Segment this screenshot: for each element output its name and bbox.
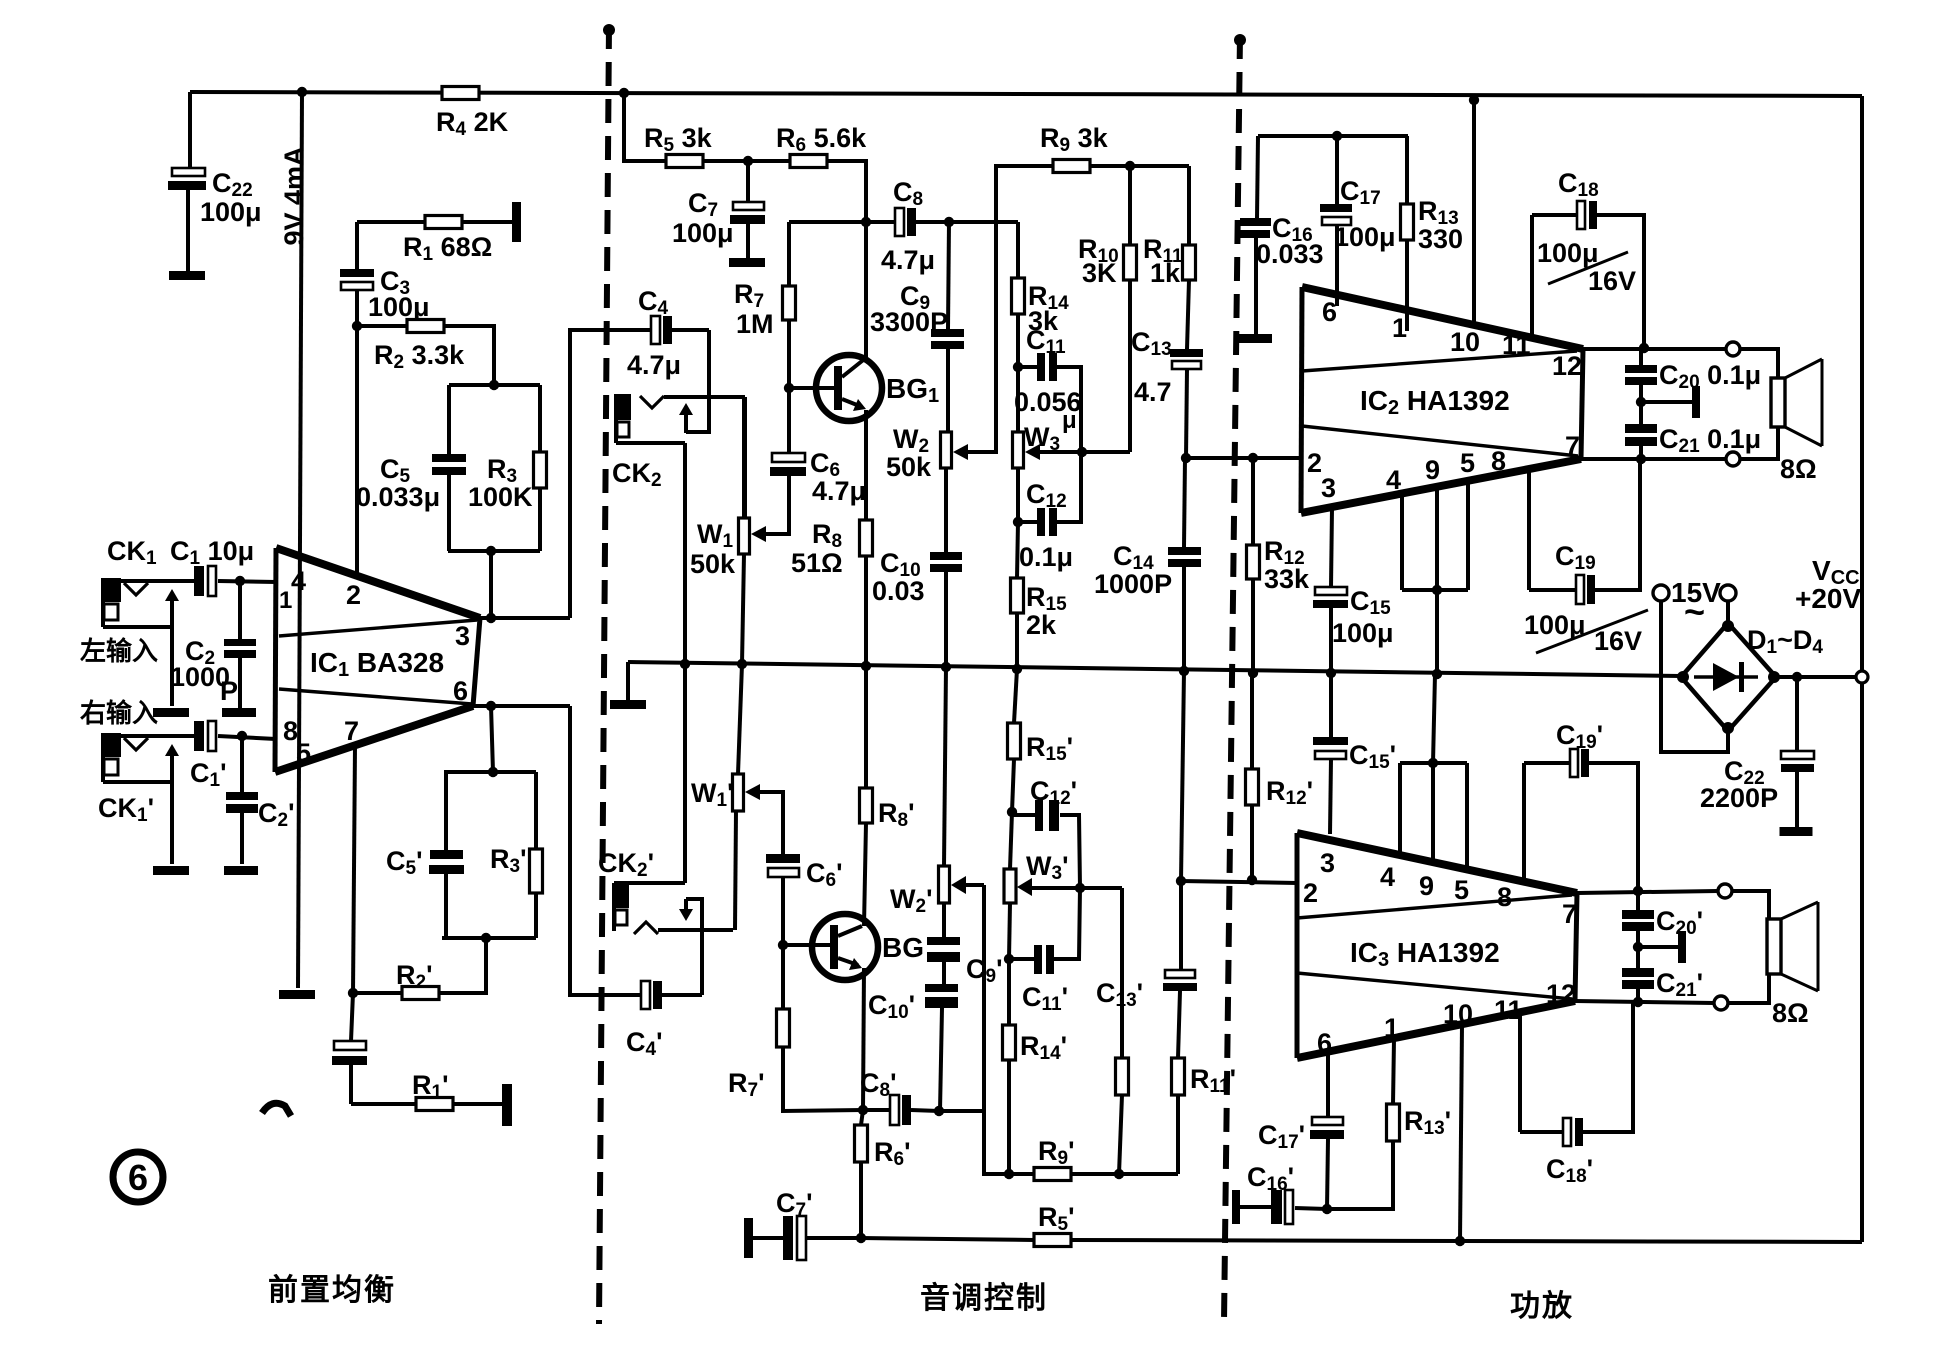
svg-text:2200P: 2200P (1700, 783, 1778, 813)
ground stub left of C7p (744, 1218, 753, 1258)
resistor R12 (1247, 458, 1260, 673)
wire IC3 pins 4 9 5 join (1400, 763, 1467, 870)
label W3 (1024, 422, 1060, 455)
label power amp section (1510, 1290, 1574, 1323)
pin 7 IC2 (1565, 431, 1580, 461)
label BG (882, 932, 924, 963)
label CK1p (98, 793, 154, 826)
label C11p (1022, 982, 1068, 1015)
wire IC3 pin6 to C17p (1326, 1052, 1330, 1117)
wire IC3 lower output line (1575, 1001, 1714, 1003)
label R13 330 (1418, 196, 1463, 254)
label R9 3k (1040, 123, 1109, 156)
svg-text:1: 1 (279, 587, 292, 614)
svg-text:3K: 3K (1082, 258, 1117, 288)
label W2 50k (886, 424, 932, 482)
label W3p (1026, 851, 1068, 884)
resistor R7 (783, 222, 796, 388)
capacitor C22 (top left) (168, 168, 206, 271)
label C9 3300P (870, 281, 948, 337)
wire bus to IC2 pin10 (1472, 100, 1476, 322)
capacitor C11p (1009, 888, 1080, 974)
svg-text:9: 9 (1419, 871, 1434, 901)
pin 6 IC1 (453, 676, 468, 706)
capacitor C15p (1313, 673, 1348, 834)
resistor R3 (534, 385, 547, 551)
label R8 51ohm (791, 519, 843, 578)
svg-text:12: 12 (1552, 351, 1582, 381)
label D1-D4 (1747, 625, 1823, 658)
label R2p (396, 960, 433, 993)
pin 4 IC2 (1386, 465, 1401, 495)
label C20p (1656, 906, 1703, 939)
wire right vcc rail (1860, 96, 1864, 1242)
node C18 output (1639, 343, 1649, 353)
resistor R1p (416, 1098, 453, 1111)
wire to IC2 pin2 (1186, 456, 1302, 460)
wire to lower speaker bottom (1728, 974, 1769, 1003)
wire W3p bottom (1009, 903, 1010, 959)
svg-text:4: 4 (1380, 862, 1395, 892)
wire base wire (789, 386, 838, 390)
node R12 top (1248, 453, 1258, 463)
wire R13p to C16p row (1330, 1141, 1393, 1209)
wire IC2 pins 4 9 5 join (1402, 481, 1468, 590)
node lower box top (488, 767, 498, 777)
node C16p junction (1322, 1204, 1332, 1214)
label R5p (1038, 1202, 1075, 1235)
pin 6 IC2 (1322, 297, 1337, 327)
svg-text:8: 8 (1497, 882, 1512, 912)
wire CK2p riser (743, 397, 747, 518)
jack CK1 switch arm (165, 589, 179, 706)
label C11 0.056u (1014, 325, 1082, 434)
pin 5 IC1 (296, 738, 311, 768)
svg-text:2: 2 (1307, 448, 1322, 478)
wire R14 branch (1016, 222, 1020, 278)
resistor R14p (1003, 959, 1016, 1174)
svg-text:4.7μ: 4.7μ (627, 350, 681, 380)
wire bus to R5 (624, 93, 666, 161)
label Vcc 20V (1795, 555, 1861, 614)
label R14p (1020, 1031, 1067, 1064)
jack CK1p switch arm (165, 744, 179, 864)
pin 8 IC1 (283, 716, 298, 746)
wire IC2 output line (1583, 347, 1726, 351)
label C5 0.033u (356, 454, 440, 512)
svg-text:4.7μ: 4.7μ (812, 476, 866, 506)
capacitor C13 (1170, 349, 1203, 458)
svg-text:2: 2 (346, 580, 361, 610)
capacitor C4p (641, 981, 702, 1009)
svg-text:C5': C5' (386, 846, 423, 879)
wire IC3 pin10 to bottom bus (1460, 1025, 1462, 1241)
node R6p bottom bus (856, 1233, 866, 1243)
capacitor C1p (194, 721, 276, 751)
node C13p top (1176, 876, 1186, 886)
wire jack sleeve vertical (683, 443, 687, 883)
resistor R5p (1034, 1234, 1071, 1247)
svg-text:0.033μ: 0.033μ (356, 482, 440, 512)
svg-text:1000P: 1000P (1094, 569, 1172, 599)
label C14 1000P (1094, 541, 1172, 599)
label IC3 HA1392 (1350, 937, 1500, 971)
label R6 5.6k (776, 123, 867, 156)
wire C5p R3p box top (444, 770, 536, 774)
capacitor C17p (1310, 1117, 1344, 1209)
wire R10 bottom (1128, 280, 1132, 452)
capacitor C8p (863, 1095, 939, 1125)
capacitor C9 (931, 329, 964, 432)
svg-text:IC3 HA1392: IC3 HA1392 (1350, 937, 1500, 971)
svg-text:9V 4mA: 9V 4mA (279, 146, 309, 245)
speaker upper 8ohm (1771, 359, 1822, 446)
label C1 10u (170, 536, 254, 569)
svg-text:W3': W3' (1026, 851, 1068, 884)
pin 10 IC3 (1443, 999, 1473, 1029)
pin 12 IC3 (1546, 979, 1576, 1009)
jack CK1p tip contact (112, 736, 194, 750)
label C2 1000P (170, 636, 238, 706)
svg-text:W2': W2' (890, 884, 932, 917)
wire lower tap to ground (1638, 945, 1678, 949)
node W1 bus (737, 659, 747, 669)
capacitor C3 (340, 222, 374, 326)
pin 3 IC1 (455, 621, 470, 651)
svg-text:1: 1 (1392, 313, 1407, 343)
wire R14 to W3 (1016, 367, 1020, 432)
ground stub C20p C21p (1678, 931, 1686, 963)
potentiometer W1 (739, 518, 767, 554)
pin 2 IC3 (1303, 878, 1318, 908)
resistor R6p (855, 1110, 868, 1238)
label C16 0.033 (1256, 213, 1324, 269)
capacitor C10 (930, 552, 962, 667)
node lower box bottom (481, 933, 491, 943)
wire W1 bottom (742, 554, 744, 664)
ground CK1 switch (153, 708, 189, 717)
capacitor C6p (766, 854, 800, 945)
capacitor C10p (925, 984, 958, 1111)
capacitor C8 (895, 208, 1018, 236)
wire R1 row (357, 220, 516, 224)
svg-text:左输入: 左输入 (80, 636, 158, 666)
svg-text:5: 5 (296, 738, 311, 768)
node C8 out junction (944, 217, 954, 227)
svg-text:0.03: 0.03 (872, 576, 925, 606)
wire bus left ground stem (626, 662, 630, 700)
wire R9 to R10 R11 (1090, 164, 1189, 168)
svg-text:BG: BG (882, 932, 924, 963)
wire R2p row (353, 938, 486, 993)
resistor R13 (1401, 136, 1414, 331)
wire base row (789, 220, 895, 224)
resistor R12p (1246, 673, 1259, 880)
svg-text:330: 330 (1418, 224, 1463, 254)
label preamp section (268, 1274, 396, 1307)
node C20p C21p tap (1633, 942, 1643, 952)
node R2p junction (348, 988, 358, 998)
capacitor C4 (651, 316, 709, 344)
wire pin3 output (480, 616, 570, 620)
wire R11p column (1176, 1095, 1180, 1174)
node R14 C11 (1013, 362, 1023, 372)
node R12 bus (1248, 668, 1258, 678)
node R8 bus (861, 661, 871, 671)
svg-text:R6 5.6k: R6 5.6k (776, 123, 867, 156)
svg-text:100μ: 100μ (1537, 238, 1599, 268)
node box bottom (486, 546, 496, 556)
pin 12 IC2 (1552, 351, 1582, 381)
resistor R4 (442, 87, 479, 100)
svg-text:50k: 50k (886, 452, 932, 482)
svg-text:11: 11 (1502, 330, 1531, 360)
svg-text:8Ω: 8Ω (1780, 454, 1817, 484)
label R14 3k (1028, 281, 1069, 336)
stray arc mark (262, 1103, 291, 1116)
dashed section divider right (1224, 34, 1246, 1322)
label C22 100u (200, 168, 262, 227)
node IC3 pins join (1428, 758, 1438, 768)
capacitor C14 (1168, 458, 1201, 671)
label R12p (1266, 776, 1313, 809)
label W1 50k (690, 519, 736, 579)
label C7 100u (672, 188, 734, 248)
label C12 0.1u (1019, 479, 1073, 572)
label C12p (1030, 776, 1077, 809)
node C7 junction (743, 156, 753, 166)
label 9V 4mA (279, 146, 309, 245)
label R11p (1190, 1064, 1236, 1097)
resistor R8 (860, 520, 873, 556)
node R10p bottom (1114, 1169, 1124, 1179)
label R5 3k (644, 123, 713, 156)
wire C8p to wiper riser (939, 1109, 984, 1113)
wire R11 drop (1187, 166, 1191, 245)
capacitor C17 (1320, 136, 1352, 306)
label R15p (1026, 732, 1073, 765)
resistor R11 (1183, 245, 1196, 280)
wire R5 to R6 (703, 159, 790, 163)
label R13p (1404, 1106, 1451, 1139)
node R2 C3 junction (352, 321, 362, 331)
wire BG emitter drop (863, 968, 864, 1110)
label C5p (386, 846, 423, 879)
node 9V rail junction (297, 87, 307, 97)
label C4p (626, 1027, 663, 1060)
wire output riser to C4 (570, 330, 651, 618)
svg-text:51Ω: 51Ω (791, 548, 843, 578)
wire IC2 pin3 to C15 (1331, 508, 1332, 587)
wire R10 drop (1128, 166, 1132, 245)
resistor R5 (666, 155, 703, 168)
svg-text:0.1μ: 0.1μ (1019, 542, 1073, 572)
capacitor C20 (1625, 349, 1657, 402)
wire pin6 output (473, 704, 570, 708)
op-amp IC2 HA1392 outline (1301, 287, 1583, 513)
svg-text:6: 6 (453, 676, 468, 706)
jack CK2p tip contact (634, 922, 733, 934)
svg-text:10: 10 (1450, 327, 1480, 357)
pin 4 IC3 (1380, 862, 1395, 892)
capacitor C18p loop (1520, 1003, 1633, 1146)
node C10 bus (941, 662, 951, 672)
potentiometer W1p (733, 664, 761, 811)
resistor R11p (1172, 1058, 1185, 1095)
node C1 to C2 (235, 576, 245, 586)
capacitor C21 (1625, 402, 1657, 459)
label C3 100u (368, 266, 430, 322)
node BG base lower (778, 940, 788, 950)
svg-text:4: 4 (1386, 465, 1401, 495)
label C10 0.03 (872, 548, 925, 606)
label C13 4.7 (1131, 327, 1172, 407)
wire C5 R3 box top (449, 383, 540, 387)
terminal 15V right (1720, 585, 1736, 601)
resistor R3p (530, 772, 543, 938)
label R7 1M (734, 279, 774, 339)
wire BG base wire (783, 943, 834, 947)
pin 10 IC2 (1450, 327, 1480, 357)
wire box to pin3 node (489, 551, 493, 618)
label R6p (874, 1137, 911, 1170)
label CK1 (107, 536, 157, 569)
node C14 bus (1179, 666, 1189, 676)
jack CK2 switch arm (679, 403, 693, 433)
wire IC3 pin1 to R13p (1393, 1039, 1394, 1104)
wire W2 bottom (944, 468, 948, 552)
capacitor C21p (1622, 947, 1654, 1002)
svg-text:10: 10 (1443, 999, 1473, 1029)
node BG1 base (784, 383, 794, 393)
potentiometer W3 (1013, 432, 1041, 468)
terminal lower speaker minus (1714, 996, 1728, 1010)
node IC1 pin3 output (486, 613, 496, 623)
label C8p (860, 1068, 897, 1101)
label C13p (1096, 978, 1143, 1011)
capacitor C6 (757, 388, 806, 534)
resistor R8p (860, 788, 873, 823)
transistor BG (812, 914, 878, 980)
label CK2p (598, 848, 654, 881)
diode bridge D1-D4 (1677, 620, 1780, 734)
svg-text:7: 7 (1565, 431, 1580, 461)
svg-text:R6': R6' (874, 1137, 911, 1170)
node C15 bus (1326, 668, 1336, 678)
svg-text:7: 7 (344, 716, 359, 746)
node C12 R15 (1013, 517, 1023, 527)
capacitor C20p (1622, 891, 1654, 947)
label R9p (1038, 1136, 1075, 1169)
svg-text:C20 0.1μ: C20 0.1μ (1659, 360, 1761, 393)
resistor R9p (1009, 1168, 1178, 1181)
jack CK2p body (612, 883, 685, 931)
svg-text:C6': C6' (806, 858, 843, 891)
node C22b junction (1792, 672, 1802, 682)
pin 1 IC3 (1384, 1013, 1399, 1043)
svg-text:5: 5 (1454, 875, 1469, 905)
capacitor C11 (1018, 353, 1081, 452)
svg-text:C2': C2' (258, 798, 295, 831)
capacitor C9p (927, 903, 960, 984)
potentiometer W2p (939, 667, 967, 903)
svg-text:功放: 功放 (1510, 1290, 1574, 1323)
svg-text:6: 6 (128, 1157, 148, 1198)
svg-text:9: 9 (1425, 455, 1440, 485)
pin 8 IC3 (1497, 882, 1512, 912)
svg-text:100μ: 100μ (1332, 618, 1394, 648)
pin 2 IC1 (346, 580, 361, 610)
svg-text:R9': R9' (1038, 1136, 1075, 1169)
jack CK1p body (101, 733, 172, 782)
label C17p (1258, 1120, 1305, 1153)
svg-text:2k: 2k (1026, 610, 1057, 640)
pin 1 IC2 (1392, 313, 1407, 343)
ground stub left of C16p (1232, 1190, 1240, 1224)
wire bottom bus left (861, 1238, 1034, 1240)
capacitor C19p loop (1524, 749, 1638, 891)
node R14p R9p (1004, 1169, 1014, 1179)
wire R10p to R9p (1119, 1095, 1122, 1174)
node R5 bus junction (619, 88, 629, 98)
label CK2 (612, 458, 662, 491)
resistor R15p (1008, 669, 1021, 812)
capacitor C16p (1240, 1190, 1327, 1224)
wire C4p to switch arm (686, 899, 702, 995)
label IC1 BA328 (310, 647, 444, 681)
pin 5 IC2 (1460, 448, 1475, 478)
svg-text:7: 7 (1562, 899, 1577, 929)
node C19p output (1633, 886, 1643, 896)
resistor R1 (425, 216, 462, 229)
resistor R7p (777, 1009, 790, 1047)
wire W2 wiper to R9 riser (958, 166, 1053, 452)
svg-text:1: 1 (1384, 1013, 1399, 1043)
wire R7p column (781, 945, 785, 1009)
label C21p (1656, 968, 1703, 1001)
pin 6 IC3 (1317, 1028, 1332, 1058)
ground below C2 (222, 708, 256, 717)
svg-text:C1': C1' (190, 758, 227, 791)
pin 1 IC1 (279, 587, 292, 614)
svg-text:C21 0.1μ: C21 0.1μ (1659, 424, 1761, 457)
label R8p (878, 798, 915, 831)
wire R11 to C13 (1187, 280, 1189, 349)
node W3p wiper (1075, 883, 1085, 893)
label C10p (868, 990, 915, 1023)
node IC1 pin6 output (486, 701, 496, 711)
wire tap to ground (1641, 400, 1692, 404)
node pins bus (1432, 669, 1442, 679)
svg-text:1k: 1k (1150, 258, 1181, 288)
ground stub right of R1p (502, 1084, 512, 1126)
wire W3 wiper line (1030, 450, 1130, 454)
wire C5p R3p box bottom (442, 936, 536, 940)
svg-text:6: 6 (1322, 297, 1337, 327)
svg-text:P: P (220, 676, 238, 706)
ground below C7 (729, 258, 765, 267)
svg-text:D1~D4: D1~D4 (1747, 625, 1823, 658)
wire BG1 emitter (864, 410, 868, 520)
node pins join (1432, 585, 1442, 595)
svg-text:前置均衡: 前置均衡 (268, 1274, 396, 1307)
wire C4 to switch arm (686, 330, 709, 432)
label BG1 (886, 373, 939, 407)
capacitor C16 (1240, 136, 1271, 334)
svg-text:音调控制: 音调控制 (920, 1282, 1048, 1315)
wire BG1 collector (864, 222, 868, 357)
node C21p bottom (1633, 997, 1643, 1007)
